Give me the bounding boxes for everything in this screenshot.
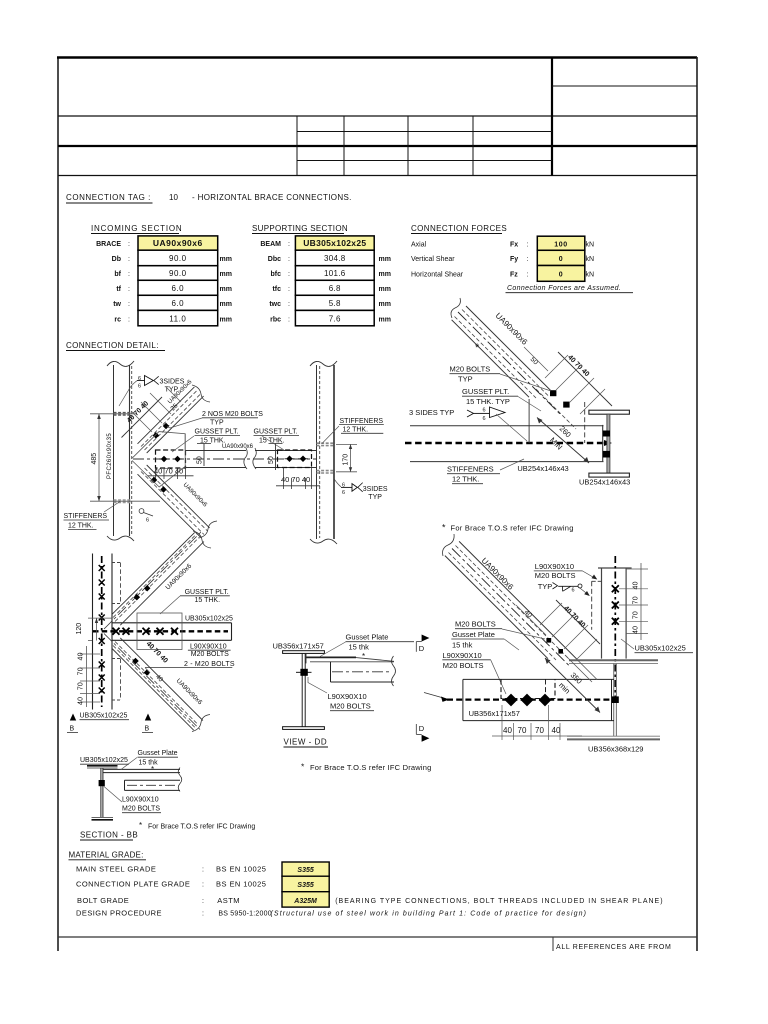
svg-text::: : <box>202 882 204 889</box>
footer divider <box>552 937 554 951</box>
column bolt 5 <box>99 638 105 644</box>
svg-text:Fz: Fz <box>510 272 518 279</box>
d5 leader arrow into heavy line <box>424 693 447 700</box>
svg-text:DESIGN PROCEDURE: DESIGN PROCEDURE <box>76 909 162 918</box>
dimension 120 d3 <box>88 617 112 619</box>
supporting row Dbc <box>295 250 374 266</box>
weld symbol bottom right 3SIDES <box>341 483 363 496</box>
beam top edge d3 <box>112 622 232 624</box>
svg-text:mm: mm <box>379 301 391 308</box>
svg-text:Connection Forces are Assumed.: Connection Forces are Assumed. <box>507 285 621 292</box>
svg-text:CONNECTION TAG :: CONNECTION TAG : <box>66 193 151 202</box>
weld mark bottom column <box>139 509 144 514</box>
right column web line <box>333 365 335 539</box>
revision table column 2 <box>343 116 345 176</box>
svg-text::: : <box>202 911 204 918</box>
svg-text:ALL REFERENCES ARE FROM: ALL REFERENCES ARE FROM <box>556 944 671 951</box>
gusset plate right dashed outline <box>278 450 312 468</box>
revision table column 3 <box>407 116 409 176</box>
svg-text:STIFFENERS: STIFFENERS <box>64 513 108 520</box>
svg-text::: : <box>288 286 290 293</box>
titleblock divider h2 thick <box>58 145 697 147</box>
svg-text:6.0: 6.0 <box>171 284 184 293</box>
supporting row twc <box>295 295 374 310</box>
titleblock bottom line <box>58 175 697 177</box>
svg-text:CONNECTION DETAIL:: CONNECTION DETAIL: <box>66 341 159 350</box>
svg-text:rbc: rbc <box>270 316 281 323</box>
d5 beam bolt 2 <box>521 694 534 707</box>
svg-text:- HORIZONTAL BRACE CONNECTIONS: - HORIZONTAL BRACE CONNECTIONS. <box>192 193 352 202</box>
VIEW DD top flange <box>283 651 325 654</box>
VIEW DD leader bolts <box>308 677 327 693</box>
svg-text::: : <box>202 867 204 874</box>
svg-text:(Structural use of steel work: (Structural use of steel work in buildin… <box>271 910 588 917</box>
svg-text:STIFFENERS: STIFFENERS <box>340 418 384 425</box>
BB leader bolts <box>104 787 122 803</box>
leader gusset d2 <box>518 397 541 412</box>
dim line 260 <box>537 418 589 464</box>
svg-text:6: 6 <box>342 490 345 496</box>
revision table row line 1 <box>297 131 552 133</box>
leader stiffeners d2 <box>500 459 524 470</box>
svg-text:BOLT GRADE: BOLT GRADE <box>77 896 129 905</box>
svg-text:mm: mm <box>379 256 391 263</box>
d5 bottom beam bottom flange <box>567 735 660 737</box>
svg-text:L90X90X10: L90X90X10 <box>535 562 574 571</box>
svg-text:bf: bf <box>114 271 121 278</box>
diagonal dim extension lines <box>131 411 152 432</box>
svg-text:bfc: bfc <box>271 271 282 278</box>
bolt right gusset 1 <box>285 456 295 463</box>
section marker B left <box>70 714 76 721</box>
section marker B right <box>145 714 151 721</box>
svg-text:Db: Db <box>112 256 121 263</box>
svg-text:Dbc: Dbc <box>268 256 281 263</box>
gusset edge solid vertical <box>528 399 530 443</box>
svg-text:GUSSET PLT.: GUSSET PLT. <box>185 589 229 596</box>
d5 leader L90 <box>491 660 506 694</box>
svg-text:BEAM: BEAM <box>260 241 281 248</box>
svg-text:INCOMING SECTION: INCOMING SECTION <box>91 224 182 233</box>
svg-text:M20 BOLTS: M20 BOLTS <box>191 651 229 658</box>
beam heavy dashed centerline d3 <box>93 630 228 632</box>
svg-text:UB254x146x43: UB254x146x43 <box>517 464 568 473</box>
upper brace edge left d3 <box>112 532 195 614</box>
d5 gusset dashed inner line <box>545 680 547 699</box>
d5 dim right line <box>640 563 642 640</box>
beam end cap d3 <box>231 623 233 641</box>
d5 bolt 2 <box>558 649 563 654</box>
BB gusset plate lines <box>103 768 180 770</box>
supporting row tfc <box>295 280 374 295</box>
svg-text:2 - M20 BOLTS: 2 - M20 BOLTS <box>184 661 235 668</box>
d5 leader top label <box>583 571 596 579</box>
svg-text::: : <box>128 286 130 293</box>
d5 brace centerline <box>452 549 570 667</box>
d5 beam UB356 left end <box>462 679 464 720</box>
dimension 40 70 40 diagonal d2 <box>558 352 612 406</box>
svg-text::: : <box>128 301 130 308</box>
border left <box>57 57 59 951</box>
svg-text:120: 120 <box>76 623 83 635</box>
upper brace bolt 1 <box>134 594 141 601</box>
svg-text:S355: S355 <box>297 882 313 889</box>
brace top break <box>451 298 460 318</box>
svg-text::: : <box>288 241 290 248</box>
svg-text:12 THK.: 12 THK. <box>452 475 479 484</box>
d5 gusset dashed rect on beam <box>501 680 555 699</box>
svg-text:BS EN 10025: BS EN 10025 <box>216 880 266 889</box>
svg-text:6.8: 6.8 <box>329 284 341 293</box>
bolt left gusset 2 <box>173 456 183 463</box>
column bolt 2 <box>99 580 105 586</box>
lower brace bolt 1 <box>132 658 139 665</box>
d5 brace dashed lines <box>456 546 572 662</box>
svg-text:Horizontal Shear: Horizontal Shear <box>411 272 464 279</box>
svg-text:GUSSET PLT.: GUSSET PLT. <box>195 429 239 436</box>
VIEW DD end break <box>392 656 396 686</box>
upper brace dashed lines d3 <box>115 538 199 622</box>
gusset edge dashed vertical <box>584 402 586 443</box>
I-section bottom flange <box>589 473 630 477</box>
beam heavy dashed centerline <box>405 442 606 444</box>
svg-text:mm: mm <box>220 286 232 293</box>
bolt gusset d2 1 <box>550 390 556 396</box>
upper diagonal brace edge right <box>147 396 204 453</box>
leader 2 NOS bolts <box>167 418 202 428</box>
svg-text::: : <box>128 271 130 278</box>
column PFC face dashed line <box>131 366 133 535</box>
titleblock divider h1 <box>58 115 697 117</box>
svg-text:6: 6 <box>483 408 486 414</box>
section marker D lower <box>415 724 417 734</box>
svg-text::: : <box>202 898 204 905</box>
beam bolt 5 <box>171 628 178 635</box>
stiffener dashes right column lower <box>317 470 335 472</box>
stiffener dashes upper left column <box>114 412 132 414</box>
svg-text:TYP: TYP <box>538 582 553 591</box>
incoming row BRACE <box>138 236 218 250</box>
lower brace bolt 2 <box>144 669 151 676</box>
svg-text:UB356x171x57: UB356x171x57 <box>273 642 324 651</box>
d5 dim line 350 <box>545 658 600 713</box>
supporting row rbc <box>295 310 374 325</box>
bolt pair lower on web <box>603 451 610 458</box>
svg-text:L90X90X10: L90X90X10 <box>190 644 227 651</box>
upper diagonal brace edge left <box>138 387 195 444</box>
svg-text:UB305x102x25: UB305x102x25 <box>185 616 233 623</box>
svg-text::: : <box>527 242 529 249</box>
dimension 170 <box>336 443 357 445</box>
bolt right gusset 2 <box>298 456 308 463</box>
lower brace edge lower d3 <box>112 649 194 731</box>
dimension 485 extension top <box>90 413 136 415</box>
diagonal brace upper edge <box>466 306 553 393</box>
svg-text:MATERIAL GRADE:: MATERIAL GRADE: <box>69 851 144 860</box>
svg-text:90.0: 90.0 <box>169 254 187 263</box>
lower brace edge upper d3 <box>120 638 203 721</box>
svg-text:15 THK.: 15 THK. <box>259 438 285 445</box>
svg-text:6.0: 6.0 <box>171 299 184 308</box>
svg-text:15 THK.: 15 THK. <box>200 438 226 445</box>
svg-text:2 NOS M20 BOLTS: 2 NOS M20 BOLTS <box>202 411 263 418</box>
svg-text:TYP: TYP <box>165 387 179 394</box>
dimension 485 line <box>98 414 100 501</box>
titleblock right panel divider vertical thick <box>551 57 553 176</box>
leader gusset left <box>172 436 194 452</box>
svg-text:kN: kN <box>586 272 595 279</box>
gusset dashed diagonal upper <box>536 389 576 429</box>
svg-text:7.6: 7.6 <box>329 314 341 323</box>
d5 member bolt 3 <box>612 618 619 625</box>
upper brace bolt 2 <box>144 585 151 592</box>
leader gusset right <box>262 436 284 450</box>
column PFC left flange line <box>113 365 115 536</box>
beam bolt 2 <box>123 628 130 635</box>
d5 brace lower edge <box>445 556 548 659</box>
svg-text:*: * <box>475 342 480 354</box>
leader weld d2 <box>496 414 527 441</box>
svg-text:CONNECTION PLATE GRADE: CONNECTION PLATE GRADE <box>76 880 190 889</box>
svg-text:UA90x90x6: UA90x90x6 <box>222 444 254 450</box>
VIEW DD leader gusset <box>320 642 346 657</box>
svg-text:50: 50 <box>268 456 275 464</box>
dimension 485 extension bottom <box>90 500 160 502</box>
column bolt 6 <box>99 662 105 668</box>
d5 dim right extension lines <box>626 568 648 570</box>
gusset outline lower <box>132 461 185 488</box>
beam bottom edge d3 <box>112 639 232 641</box>
svg-text:CONNECTION FORCES: CONNECTION FORCES <box>411 224 507 233</box>
I-section top flange <box>589 410 630 414</box>
BB end break <box>178 768 182 792</box>
svg-text:40 70 70 40: 40 70 70 40 <box>78 652 85 705</box>
upper brace end break <box>192 385 210 402</box>
svg-text::: : <box>128 256 130 263</box>
column bolt 1 <box>99 565 105 571</box>
svg-text:304.8: 304.8 <box>324 254 346 263</box>
horizontal brace bottom edge <box>186 467 317 469</box>
diagonal brace lower edge <box>452 320 529 397</box>
brace break symbol <box>244 448 256 469</box>
BB bolt <box>99 780 105 786</box>
BB angle outline <box>125 779 181 781</box>
svg-text:S355: S355 <box>297 867 313 874</box>
svg-text:mm: mm <box>220 271 232 278</box>
d5 gusset dashed edge <box>591 581 593 629</box>
svg-text:3SIDES: 3SIDES <box>363 486 388 493</box>
svg-text:L90X90X10: L90X90X10 <box>122 797 159 804</box>
leader gusset d3 <box>160 596 180 614</box>
d5 vertical member right edge <box>625 568 627 659</box>
svg-text:40 70 70 40: 40 70 70 40 <box>633 581 640 634</box>
svg-text:Gusset Plate: Gusset Plate <box>138 750 178 757</box>
VIEW DD bolt <box>300 669 307 676</box>
I-section end plate line <box>602 425 604 462</box>
svg-text:15 THK.: 15 THK. <box>195 597 221 604</box>
svg-text:Gusset Plate: Gusset Plate <box>346 633 389 642</box>
gusset dashed bottom cap <box>112 699 121 701</box>
right column left flange line <box>316 365 318 539</box>
bolt lower brace 2 <box>160 486 167 493</box>
border right <box>696 57 698 951</box>
svg-text:B: B <box>70 726 75 733</box>
svg-text:6: 6 <box>146 518 149 524</box>
horizontal brace top edge <box>186 450 317 452</box>
d5 vertical member top cap <box>598 567 632 569</box>
upper brace edge right d3 <box>120 542 204 626</box>
svg-text:UB356x171x57: UB356x171x57 <box>469 709 520 718</box>
d5 leader m20 <box>502 629 545 639</box>
svg-text:6: 6 <box>483 416 486 422</box>
d5 vertical member left edge <box>601 568 603 659</box>
leader weld bottom <box>335 480 342 487</box>
svg-text:*: * <box>139 821 142 830</box>
bolt gusset d2 2 <box>563 402 569 408</box>
weld symbol top 3SIDES <box>137 376 159 390</box>
svg-text:Fy: Fy <box>510 256 518 263</box>
svg-text:UB305x102x25: UB305x102x25 <box>303 238 366 248</box>
I-section web <box>607 414 610 473</box>
dim extension lines d2 <box>556 365 581 390</box>
dimension 50 right <box>275 444 277 471</box>
incoming row bf <box>138 266 218 281</box>
svg-text:kN: kN <box>586 242 595 249</box>
d5 heavy dashed line <box>447 698 616 700</box>
right column bottom break <box>310 539 337 544</box>
upper brace centerline d3 <box>104 532 201 629</box>
svg-text:D: D <box>419 724 425 733</box>
svg-text::: : <box>288 256 290 263</box>
svg-text:15 thk: 15 thk <box>349 643 370 652</box>
svg-text:M20 BOLTS: M20 BOLTS <box>122 806 160 813</box>
d5 member bolt 2 <box>612 602 619 609</box>
svg-text:170: 170 <box>343 454 350 466</box>
bolt lower brace 1 <box>151 477 158 484</box>
VIEW DD web <box>301 653 303 726</box>
d5 member bolt 1 <box>612 585 619 592</box>
svg-text:485: 485 <box>91 453 98 465</box>
diagonal brace dashed lines <box>462 310 548 396</box>
section marker D upper <box>422 635 430 642</box>
svg-text::: : <box>288 301 290 308</box>
d5 leader ub305 <box>621 639 634 649</box>
svg-text:ASTM: ASTM <box>217 896 240 905</box>
svg-text:rc: rc <box>114 316 121 323</box>
svg-text::: : <box>288 271 290 278</box>
svg-text:UB356x368x129: UB356x368x129 <box>588 745 643 754</box>
d5 bottom beam web <box>613 663 615 736</box>
column bolt 4 <box>99 615 105 621</box>
d5 bottom dim line <box>492 735 582 737</box>
lower brace dashed lines d3 <box>115 642 198 725</box>
incoming row tf <box>138 280 218 295</box>
d5 brace upper edge <box>459 541 577 659</box>
svg-text:mm: mm <box>220 316 232 323</box>
column bolt line dashed <box>101 556 103 707</box>
BB web <box>100 768 102 817</box>
svg-text:B: B <box>145 726 150 733</box>
revision table column 1 <box>296 116 298 176</box>
beam bolt 1 <box>113 628 120 635</box>
svg-text:15 thk: 15 thk <box>452 640 473 649</box>
bolt pair upper on web <box>603 431 610 437</box>
VIEW DD angle bottom <box>331 681 395 683</box>
weld symbol d2 <box>467 407 505 422</box>
svg-text::: : <box>527 272 529 279</box>
svg-text:MAIN STEEL GRADE: MAIN STEEL GRADE <box>76 865 156 874</box>
gusset dashed edge upper right of column <box>120 563 122 604</box>
svg-text:6: 6 <box>572 588 575 594</box>
svg-text:10: 10 <box>169 193 178 202</box>
svg-text:L90X90X10: L90X90X10 <box>328 692 367 701</box>
footer line <box>58 936 697 938</box>
beam bolt 3 <box>143 628 150 635</box>
dimension 40 70 70 40 d3 <box>86 646 88 707</box>
svg-text::: : <box>128 241 130 248</box>
svg-text:SECTION - BB: SECTION - BB <box>80 831 138 840</box>
svg-text:M20 BOLTS: M20 BOLTS <box>443 661 484 670</box>
svg-text:tf: tf <box>116 286 121 293</box>
svg-text:BRACE: BRACE <box>96 241 121 248</box>
svg-text:M20 BOLTS: M20 BOLTS <box>450 365 491 374</box>
bolt upper brace 2 <box>163 423 170 430</box>
column bolt 8 <box>99 688 105 694</box>
d5 bottom dim extension lines <box>501 705 503 740</box>
svg-text:3 SIDES TYP: 3 SIDES TYP <box>409 408 454 417</box>
lower diagonal brace dashed lines <box>141 472 204 535</box>
svg-text:3SIDES: 3SIDES <box>160 379 185 386</box>
svg-text:mm: mm <box>379 271 391 278</box>
BB angle centerline <box>127 784 177 786</box>
svg-text:mm: mm <box>379 316 391 323</box>
svg-text:tw: tw <box>113 301 121 308</box>
svg-text:15 thk: 15 thk <box>139 760 159 767</box>
column PFC right flange line <box>129 365 131 536</box>
svg-text:UB305x102x25: UB305x102x25 <box>635 644 686 653</box>
svg-text:UB305x102x25: UB305x102x25 <box>80 757 128 764</box>
column bolt 7 <box>99 675 105 681</box>
lower diagonal brace edge upper <box>147 465 210 528</box>
stiffener dashes right column upper <box>317 442 335 444</box>
column web right line <box>111 554 113 710</box>
border top <box>57 56 697 58</box>
column bolt 3 <box>99 594 105 600</box>
d5 member centerline dashed <box>614 556 616 700</box>
gusset outline upper <box>132 432 185 459</box>
d5 bolt 1 <box>546 638 551 643</box>
svg-text:40 70 40: 40 70 40 <box>154 467 183 476</box>
svg-text:M20 BOLTS: M20 BOLTS <box>535 571 576 580</box>
VIEW DD angle left end <box>330 662 332 682</box>
dimension 40 70 40 diagonal <box>122 397 163 438</box>
svg-text:UB305x102x25: UB305x102x25 <box>80 713 128 720</box>
d5 gusset corner lines <box>565 655 592 682</box>
lower diagonal brace edge lower <box>138 474 201 537</box>
right panel row line <box>552 85 697 87</box>
svg-text:mm: mm <box>379 286 391 293</box>
incoming row Db <box>138 250 218 266</box>
svg-text:STIFFENERS: STIFFENERS <box>447 465 494 474</box>
d5 junction bolt <box>612 696 619 703</box>
d5 beam UB356 right end <box>611 679 613 720</box>
svg-text:(BEARING TYPE CONNECTIONS, BOL: (BEARING TYPE CONNECTIONS, BOLT THREADS … <box>335 898 663 905</box>
svg-text:101.6: 101.6 <box>324 269 346 278</box>
column web left line <box>92 554 94 710</box>
d5 beam bolt 1 <box>505 694 518 707</box>
svg-text:A325M: A325M <box>293 898 317 905</box>
brace centerline <box>133 458 316 460</box>
